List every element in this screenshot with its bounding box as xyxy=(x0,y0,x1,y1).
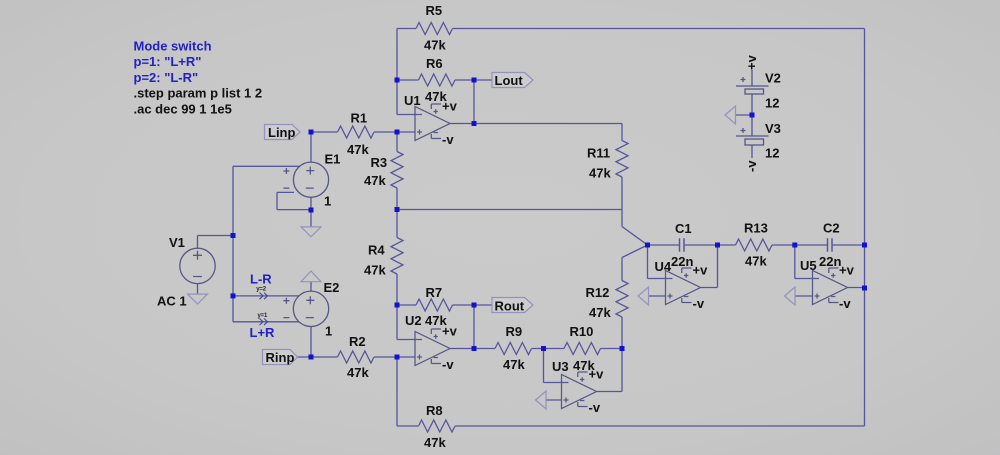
svg-text:R2: R2 xyxy=(349,334,366,349)
svg-text:-v: -v xyxy=(744,160,759,172)
svg-text:47k: 47k xyxy=(347,365,369,380)
svg-text:U3: U3 xyxy=(552,359,569,374)
svg-text:+v: +v xyxy=(839,263,855,278)
svg-text:R6: R6 xyxy=(426,56,443,71)
svg-text:Linp: Linp xyxy=(268,125,295,140)
svg-text:-v: -v xyxy=(442,357,454,372)
svg-text:R1: R1 xyxy=(351,111,368,126)
svg-text:.step param p list 1 2: .step param p list 1 2 xyxy=(134,86,263,101)
svg-text:.ac dec 99 1 1e5: .ac dec 99 1 1e5 xyxy=(134,101,232,116)
svg-text:p=1: "L+R": p=1: "L+R" xyxy=(134,54,202,69)
svg-text:V3: V3 xyxy=(765,121,781,136)
svg-text:+v: +v xyxy=(442,324,458,339)
svg-text:47k: 47k xyxy=(424,435,446,450)
svg-text:-v: -v xyxy=(442,132,454,147)
svg-text:-v: -v xyxy=(839,296,851,311)
svg-text:R7: R7 xyxy=(426,285,443,300)
svg-text:47k: 47k xyxy=(503,357,525,372)
svg-text:R10: R10 xyxy=(570,324,594,339)
svg-text:47k: 47k xyxy=(745,254,767,269)
svg-text:R3: R3 xyxy=(371,155,388,170)
svg-text:R11: R11 xyxy=(587,146,610,161)
svg-text:p=2: "L-R": p=2: "L-R" xyxy=(134,70,199,85)
svg-text:-v: -v xyxy=(589,400,601,415)
svg-text:+v: +v xyxy=(442,99,458,114)
svg-text:U5: U5 xyxy=(800,258,817,273)
svg-text:E2: E2 xyxy=(324,280,340,295)
svg-text:1: 1 xyxy=(324,194,331,209)
svg-text:y=1: y=1 xyxy=(258,313,268,319)
svg-text:47k: 47k xyxy=(424,38,446,53)
svg-text:+v: +v xyxy=(693,263,709,278)
svg-text:U1: U1 xyxy=(404,93,421,108)
svg-text:E1: E1 xyxy=(325,152,341,167)
svg-text:+v: +v xyxy=(589,367,605,382)
svg-text:L-R: L-R xyxy=(250,272,272,287)
svg-text:Mode switch: Mode switch xyxy=(134,39,212,54)
svg-text:-v: -v xyxy=(693,296,705,311)
svg-text:R8: R8 xyxy=(426,403,443,418)
svg-text:V2: V2 xyxy=(765,71,781,86)
svg-text:R12: R12 xyxy=(586,285,610,300)
svg-text:R9: R9 xyxy=(506,324,523,339)
svg-text:12: 12 xyxy=(765,146,779,161)
svg-text:Lout: Lout xyxy=(495,73,524,88)
svg-text:47k: 47k xyxy=(589,305,611,320)
svg-text:y=2: y=2 xyxy=(256,286,266,292)
svg-text:AC 1: AC 1 xyxy=(157,294,187,309)
svg-text:Rout: Rout xyxy=(495,298,525,313)
svg-text:+v: +v xyxy=(744,54,759,70)
svg-text:22n: 22n xyxy=(671,254,693,269)
svg-text:47k: 47k xyxy=(364,173,386,188)
svg-text:V1: V1 xyxy=(169,235,185,250)
svg-text:1: 1 xyxy=(325,324,332,339)
svg-text:U4: U4 xyxy=(655,259,672,274)
svg-text:Rinp: Rinp xyxy=(266,350,295,365)
svg-text:47k: 47k xyxy=(347,142,369,157)
svg-text:L+R: L+R xyxy=(250,325,276,340)
svg-text:47k: 47k xyxy=(364,263,386,278)
svg-text:C1: C1 xyxy=(675,221,692,236)
svg-text:47k: 47k xyxy=(589,166,611,181)
svg-text:12: 12 xyxy=(765,96,779,111)
svg-text:C2: C2 xyxy=(823,221,840,236)
svg-text:R4: R4 xyxy=(368,243,385,258)
svg-text:R5: R5 xyxy=(426,3,443,18)
svg-text:U2: U2 xyxy=(405,313,422,328)
svg-text:R13: R13 xyxy=(744,221,768,236)
